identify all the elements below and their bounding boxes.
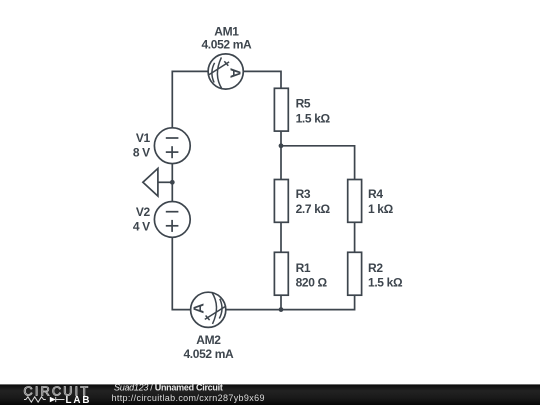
svg-text:2.7 kΩ: 2.7 kΩ bbox=[296, 202, 331, 216]
svg-text:1.5 kΩ: 1.5 kΩ bbox=[368, 275, 403, 289]
svg-text:LAB: LAB bbox=[66, 395, 92, 405]
svg-text:Suad123 / Unnamed Circuit: Suad123 / Unnamed Circuit bbox=[114, 383, 223, 393]
svg-text:R4: R4 bbox=[368, 187, 383, 201]
svg-text:R5: R5 bbox=[296, 97, 311, 111]
svg-text:R3: R3 bbox=[296, 187, 311, 201]
svg-text:V1: V1 bbox=[136, 131, 151, 145]
svg-text:R1: R1 bbox=[296, 261, 311, 275]
svg-text:4.052 mA: 4.052 mA bbox=[183, 347, 234, 361]
svg-text:4.052 mA: 4.052 mA bbox=[201, 37, 252, 51]
svg-text:R2: R2 bbox=[368, 261, 383, 275]
svg-text:AM2: AM2 bbox=[196, 333, 221, 347]
svg-text:A: A bbox=[226, 68, 242, 79]
svg-text:1.5 kΩ: 1.5 kΩ bbox=[296, 111, 331, 125]
svg-text:820 Ω: 820 Ω bbox=[296, 275, 328, 289]
svg-text:http://circuitlab.com/cxrn287y: http://circuitlab.com/cxrn287yb9x69 bbox=[112, 393, 265, 403]
svg-text:4 V: 4 V bbox=[133, 219, 150, 233]
svg-text:8 V: 8 V bbox=[133, 145, 150, 159]
svg-text:1 kΩ: 1 kΩ bbox=[368, 202, 394, 216]
svg-text:A: A bbox=[192, 303, 208, 314]
svg-text:V2: V2 bbox=[136, 205, 151, 219]
